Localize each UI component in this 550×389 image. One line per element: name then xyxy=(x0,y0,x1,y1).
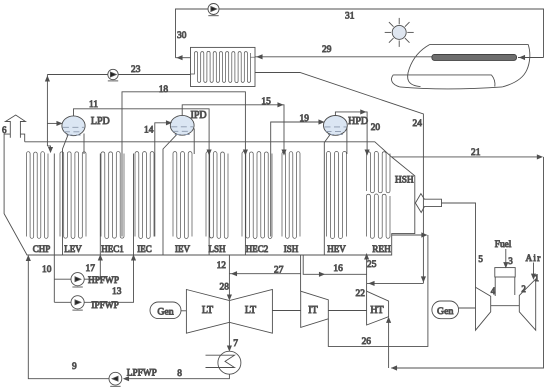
wire HPD downcomer xyxy=(324,134,330,255)
arrow up into HT xyxy=(387,318,391,323)
wire line 13 IPFWP to IEC xyxy=(84,257,133,302)
wire HPFWP suction xyxy=(54,278,71,280)
pump P-solar on line 31 xyxy=(208,4,219,15)
HRSG casing outline xyxy=(4,134,415,255)
arrow line 16 right xyxy=(319,272,324,276)
svg-text:8: 8 xyxy=(177,369,182,379)
wire line 27 to box xyxy=(300,255,302,274)
wire line 11 LPD to LSH xyxy=(74,109,210,255)
arrow line 15 down xyxy=(282,150,286,155)
wire line 17 HPFWP to HEC1 xyxy=(84,257,100,279)
stack exhaust arrow (6) xyxy=(5,115,25,138)
arrow line 8 into LPFWP xyxy=(124,377,129,381)
svg-text:IEV: IEV xyxy=(175,244,190,254)
steam turbine HT xyxy=(367,291,389,325)
wire line 17 inside box xyxy=(99,154,101,256)
svg-text:HEC2: HEC2 xyxy=(246,244,269,254)
svg-text:HPFWP: HPFWP xyxy=(88,276,119,286)
shaft GT-compressor xyxy=(491,305,520,307)
svg-text:30: 30 xyxy=(177,31,187,41)
wire line 14 IEC to IPD xyxy=(155,123,170,237)
arrow right xyxy=(422,233,427,237)
svg-text:22: 22 xyxy=(356,289,366,299)
wire line 25/22 reheat riser xyxy=(366,254,368,292)
svg-text:Gen: Gen xyxy=(157,307,173,318)
parabolic trough collector xyxy=(392,45,530,89)
wire line 24 from HX xyxy=(255,73,423,284)
wire air inlet xyxy=(533,263,535,278)
shaft LT-IT xyxy=(272,310,300,312)
shaft Gen-LT xyxy=(181,310,186,312)
svg-text:20: 20 xyxy=(371,123,381,133)
arrow line 28 down xyxy=(228,295,232,300)
arrow fuel down xyxy=(504,263,508,268)
svg-text:29: 29 xyxy=(322,45,332,55)
svg-text:19: 19 xyxy=(300,114,310,124)
svg-text:HPD: HPD xyxy=(348,116,368,127)
svg-text:9: 9 xyxy=(72,362,77,372)
wire LPD feed branch xyxy=(47,122,60,124)
wire line 31 solar loop top xyxy=(176,9,544,58)
shaft Gen-GT xyxy=(459,307,476,309)
pump LPFWP xyxy=(109,372,122,385)
svg-text:23: 23 xyxy=(131,65,141,75)
pump IPFWP xyxy=(71,296,84,309)
arrow up into line 23 xyxy=(46,77,50,82)
condenser xyxy=(218,351,241,374)
svg-text:IEC: IEC xyxy=(137,244,152,254)
arrow line 20 down xyxy=(365,150,369,155)
arrow line 29 into HX xyxy=(258,55,263,59)
svg-text:CHP: CHP xyxy=(33,244,51,254)
wire line 24 tail xyxy=(367,282,424,284)
svg-text:10: 10 xyxy=(42,265,52,275)
wire line 23 pump to HX xyxy=(47,74,190,76)
wire HPD riser xyxy=(346,127,348,154)
svg-text:Fuel: Fuel xyxy=(495,240,512,250)
wire REH outlet xyxy=(392,234,426,236)
drum HPD xyxy=(324,116,348,136)
arrow into LPD xyxy=(57,122,62,126)
steam turbine IT xyxy=(301,291,329,327)
wire IPD downcomer xyxy=(163,135,177,255)
arrow line 21 right xyxy=(537,155,542,159)
arrow air down xyxy=(532,274,536,279)
wire line 21 xyxy=(392,156,542,158)
wire line 5 GT exhaust xyxy=(442,203,476,287)
svg-text:HT: HT xyxy=(370,305,383,316)
wire HX outlet to line 30 xyxy=(176,57,191,59)
wire IPFWP suction xyxy=(54,301,71,303)
svg-text:18: 18 xyxy=(159,85,169,95)
svg-text:LPD: LPD xyxy=(91,116,110,127)
svg-text:17: 17 xyxy=(86,264,96,274)
compressor xyxy=(519,279,535,330)
svg-text:16: 16 xyxy=(333,264,343,274)
coil bundle HSH xyxy=(367,152,391,193)
coil bundle HEC1 xyxy=(101,152,124,239)
svg-text:HSH: HSH xyxy=(395,176,414,186)
arrow down into box xyxy=(49,147,53,152)
drum IPD xyxy=(170,115,194,135)
svg-text:6: 6 xyxy=(2,125,7,135)
wire LPD downcomer xyxy=(63,135,69,255)
svg-text:LT: LT xyxy=(202,305,213,316)
combustor xyxy=(495,268,515,277)
arrow line 19 into HPD xyxy=(319,120,324,124)
svg-text:LSH: LSH xyxy=(208,244,226,254)
wire collector feed xyxy=(518,57,544,59)
wire jog into CHP section xyxy=(47,146,50,152)
wire IPD riser xyxy=(193,128,195,154)
svg-text:4: 4 xyxy=(491,286,496,296)
steam turbine LT (double flow) xyxy=(186,290,272,334)
wire HT return riser xyxy=(388,318,390,368)
shaft IT-HT xyxy=(328,310,366,312)
coil bundle LSH xyxy=(206,152,228,239)
wire line 12/28 LSH to LT xyxy=(228,255,230,298)
arrow line 17 up xyxy=(98,256,102,261)
svg-text:LPFWP: LPFWP xyxy=(127,369,157,379)
wire line 21 loop down xyxy=(391,157,543,368)
coil bundle HEC2 xyxy=(242,152,272,239)
coil bundle CHP xyxy=(27,152,49,239)
svg-text:3: 3 xyxy=(508,256,513,266)
svg-text:12: 12 xyxy=(217,261,227,271)
wire line 27 IT to LT xyxy=(229,274,300,292)
arrow line 18 down xyxy=(244,150,248,155)
svg-text:HEV: HEV xyxy=(327,244,346,254)
wire compressor to combustor xyxy=(514,277,516,295)
wire line 13 inside box xyxy=(133,154,135,256)
coil bundle ISH xyxy=(282,152,300,239)
wire LPD riser xyxy=(83,134,85,155)
svg-text:1: 1 xyxy=(535,273,540,283)
wire riser CHP outlet to line 23 xyxy=(46,75,48,147)
arrow line 11 down xyxy=(207,150,211,155)
svg-text:25: 25 xyxy=(367,260,377,270)
drum LPD xyxy=(62,116,85,136)
arrow line 15 corner xyxy=(278,103,283,107)
svg-text:14: 14 xyxy=(144,126,154,136)
HRSG casing duct step xyxy=(20,134,24,142)
svg-text:13: 13 xyxy=(112,287,122,297)
arrow line 13 up xyxy=(132,256,136,261)
arrow line 14 into IPD xyxy=(166,121,171,125)
wire line 15 IPD to ISH xyxy=(182,105,284,153)
sun symbol xyxy=(392,25,406,39)
svg-text:ISH: ISH xyxy=(284,244,299,254)
flue gas inlet arrow xyxy=(415,194,441,213)
arrow line 7 down xyxy=(228,346,232,351)
pump P23 xyxy=(108,69,118,79)
generator Gen (gas) xyxy=(432,301,459,319)
wire line 18 HEC1 to HEC2 xyxy=(122,92,245,255)
wire line 9 to CHP xyxy=(28,257,109,379)
svg-text:IPD: IPD xyxy=(191,110,207,121)
arrow line 9 up xyxy=(26,256,30,261)
wire condensate drop xyxy=(125,374,230,379)
wire line 26 loop xyxy=(328,235,428,346)
svg-text:28: 28 xyxy=(220,283,230,293)
coil bundle LEV xyxy=(60,152,86,239)
svg-text:27: 27 xyxy=(274,265,284,275)
arrow line 24 into reheat line xyxy=(370,282,375,286)
arrow into receiver xyxy=(520,56,525,60)
wire line 19 HEC2 to HPD xyxy=(271,122,323,237)
svg-text:11: 11 xyxy=(89,100,98,110)
svg-text:LEV: LEV xyxy=(64,244,82,254)
svg-text:21: 21 xyxy=(471,148,481,158)
receiver tube (dark) xyxy=(432,54,517,60)
svg-text:31: 31 xyxy=(345,12,355,22)
gas turbine GT xyxy=(476,287,491,330)
svg-text:26: 26 xyxy=(362,337,372,347)
svg-text:2: 2 xyxy=(521,284,526,294)
wire fuel line xyxy=(505,249,507,266)
arrow HX outlet left xyxy=(178,56,183,60)
wire combustor to GT xyxy=(494,277,496,296)
wire line 7 LT to condenser xyxy=(228,322,230,349)
coil bundle REH xyxy=(367,194,391,238)
generator Gen (steam) xyxy=(150,302,181,319)
svg-text:IT: IT xyxy=(308,305,317,316)
svg-text:5: 5 xyxy=(478,254,483,264)
arrow line 25 up into REH xyxy=(365,255,369,260)
svg-text:REH: REH xyxy=(372,245,391,255)
coil bundle HEV xyxy=(327,152,347,239)
arrow line 27 left xyxy=(232,272,237,276)
arrow line 24 down xyxy=(422,277,426,282)
HX serpentine coil xyxy=(191,51,256,82)
arrow into HT return xyxy=(392,366,397,370)
pump HPFWP xyxy=(71,273,84,286)
svg-text:Gen: Gen xyxy=(437,306,453,317)
arrow line 20 corner xyxy=(361,110,366,114)
coil bundle IEC xyxy=(135,152,154,239)
wire line 29 collector to HX xyxy=(255,56,433,58)
svg-text:7: 7 xyxy=(233,339,238,349)
wire line 16 ISH to reheat xyxy=(303,255,366,274)
coil bundle IEV xyxy=(173,152,192,239)
solar heat exchanger HX box xyxy=(191,47,256,86)
svg-text:15: 15 xyxy=(261,97,271,107)
wire line 20 HPD to HSH xyxy=(335,112,367,153)
svg-text:LT: LT xyxy=(245,305,256,316)
svg-text:HEC1: HEC1 xyxy=(101,244,124,254)
wire line 10 CHP to pumps xyxy=(53,154,55,303)
svg-text:24: 24 xyxy=(413,119,423,129)
